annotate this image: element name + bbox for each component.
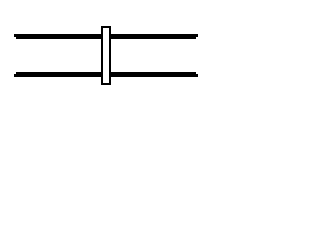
component body rectangle (feedthrough / bead element over both conductors) — [101, 26, 111, 85]
wire top conductor — [14, 34, 198, 39]
wire bottom conductor — [14, 72, 198, 77]
